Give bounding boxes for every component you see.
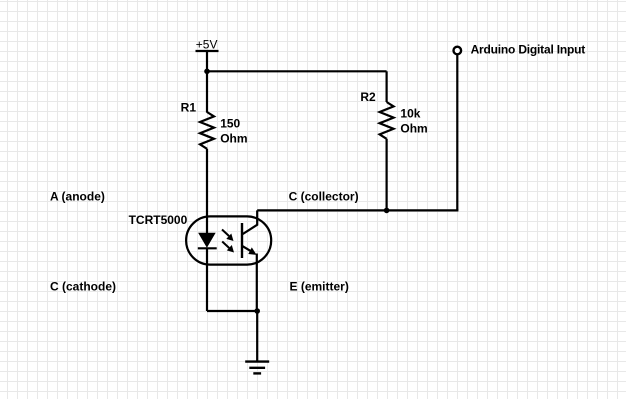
wire R2 bottom to collector node [386, 139, 388, 211]
wire terminal down to collector node [456, 55, 458, 210]
svg-text:A (anode): A (anode) [50, 189, 105, 203]
optocoupler U1 TCRT5000 body [186, 216, 271, 264]
wire node A down to R2 [386, 71, 388, 102]
svg-text:R1: R1 [181, 101, 197, 115]
terminal Arduino Digital Input [454, 47, 462, 55]
wire node A to R2 branch (top horizontal) [207, 70, 387, 72]
IR arrow 2 [222, 242, 234, 253]
power +5V [196, 38, 219, 52]
svg-text:150: 150 [220, 117, 240, 131]
svg-text:Arduino Digital Input: Arduino Digital Input [471, 42, 586, 56]
svg-text:E (emitter): E (emitter) [290, 280, 349, 294]
IR arrow 1 [222, 230, 234, 242]
svg-text:Ohm: Ohm [220, 132, 247, 146]
wire cathode down [206, 248, 208, 311]
LED cathode bar [198, 247, 217, 249]
svg-text:R2: R2 [360, 90, 376, 104]
phototransistor base bar [241, 223, 243, 258]
svg-text:10k: 10k [400, 107, 420, 121]
LED triangle (anode-cathode) [199, 233, 215, 247]
value 10k Ohm [400, 107, 427, 136]
wire junction down to ground [256, 311, 258, 362]
resistor R1 [200, 112, 214, 149]
resistor R2 [380, 102, 394, 139]
phototransistor emitter lead with arrow [242, 246, 257, 255]
svg-text:C (collector): C (collector) [289, 189, 359, 203]
wire +5V stub down to node A [206, 51, 208, 113]
svg-text:TCRT5000: TCRT5000 [129, 213, 188, 227]
ground [245, 362, 269, 374]
junction dot emitter/ground [254, 308, 260, 314]
svg-text:C (cathode): C (cathode) [50, 280, 116, 294]
node A junction dot [204, 69, 210, 75]
wire cathode to emitter junction (bottom horizontal) [207, 310, 257, 312]
junction dot collector node [384, 208, 390, 214]
svg-text:Ohm: Ohm [400, 122, 427, 136]
wire collector node horizontal [257, 209, 458, 211]
wire R1 bottom to LED anode [206, 149, 208, 234]
value 150 Ohm [220, 117, 247, 146]
phototransistor collector lead [242, 210, 257, 234]
wire emitter down to junction [256, 254, 258, 312]
svg-text:+5V: +5V [196, 38, 218, 52]
